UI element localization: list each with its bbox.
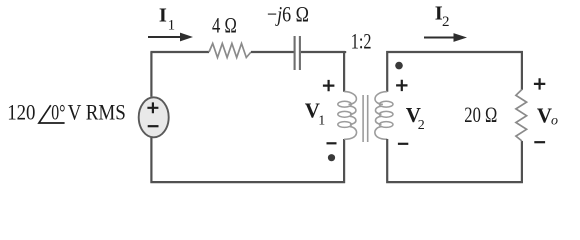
primary minus (327, 142, 337, 144)
primary polarity dot (328, 154, 335, 161)
secondary minus (398, 143, 408, 145)
svg-text:I: I (159, 4, 167, 26)
transformer primary winding L1 top hook (344, 92, 356, 105)
svg-text:120: 120 (7, 99, 35, 124)
resistor 4 ohm zigzag (209, 44, 251, 58)
svg-text:1:2: 1:2 (351, 29, 372, 54)
svg-text:2: 2 (442, 14, 450, 30)
output minus (534, 141, 545, 143)
svg-text:1: 1 (318, 113, 325, 128)
primary bottom hook (344, 127, 356, 140)
secondary loop 1 (379, 101, 393, 107)
resistor 20 ohm zigzag (516, 90, 527, 142)
arrow I1 (148, 36, 182, 38)
primary loop 3 (338, 122, 352, 128)
wire: capacitor to top-right corner of primary loop (301, 51, 345, 92)
secondary bump 1-2 (375, 106, 381, 114)
primary bump 1-2 (350, 106, 356, 114)
primary bump 2-3 (350, 116, 356, 124)
output plus (534, 78, 545, 89)
capacitor C (-j6 ohm) plates (295, 36, 300, 70)
voltage source VS 120/0 V RMS (139, 97, 169, 137)
secondary plus (396, 80, 407, 91)
svg-text:V RMS: V RMS (68, 99, 126, 124)
svg-text:−j6 Ω: −j6 Ω (267, 1, 309, 26)
primary loop 1 (338, 101, 352, 107)
primary plus (323, 80, 335, 91)
svg-text:4 Ω: 4 Ω (212, 13, 237, 38)
wire: resistor to capacitor (251, 51, 294, 53)
wire: secondary coil top up, across to right side, down to 20 ohm resistor (386, 51, 523, 92)
svg-text:o: o (551, 114, 558, 129)
secondary loop 2 (379, 111, 393, 117)
wire: secondary bottom down, bottom wire, up to resistor bottom (386, 139, 523, 183)
transformer core lines (363, 95, 368, 142)
wire: primary coil bottom down, bottom wire, up to source (150, 138, 345, 184)
arrow I2 (424, 36, 455, 38)
angle symbol (39, 105, 65, 123)
svg-text:0°: 0° (51, 99, 65, 124)
svg-text:1: 1 (168, 17, 176, 33)
secondary bump 2-3 (375, 116, 381, 124)
secondary loop 3 (379, 122, 393, 128)
svg-text:V: V (537, 104, 552, 128)
wire: source top up and across to resistor R1 (150, 52, 209, 97)
secondary polarity dot (395, 62, 403, 70)
svg-text:20 Ω: 20 Ω (464, 102, 497, 127)
primary loop 2 (338, 111, 352, 117)
secondary bottom hook (375, 127, 387, 140)
svg-text:2: 2 (418, 118, 425, 133)
source minus (148, 125, 159, 127)
source plus (147, 102, 158, 113)
secondary winding L2 top hook (375, 92, 387, 105)
